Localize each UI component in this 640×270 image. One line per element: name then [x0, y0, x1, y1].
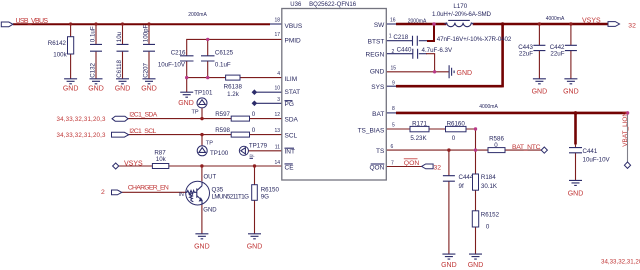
svg-text:GND: GND: [441, 262, 457, 269]
svg-text:U36: U36: [290, 2, 302, 8]
svg-text:SDA: SDA: [285, 116, 299, 123]
svg-text:11: 11: [275, 144, 280, 150]
svg-text:R171: R171: [412, 121, 427, 128]
svg-text:1: 1: [389, 33, 392, 39]
svg-text:17: 17: [274, 32, 280, 38]
svg-text:R598: R598: [215, 127, 230, 134]
svg-text:GND: GND: [203, 208, 217, 214]
svg-text:GND: GND: [194, 244, 210, 251]
svg-text:VSYS: VSYS: [582, 17, 601, 24]
svg-text:OUT: OUT: [204, 175, 217, 181]
svg-text:ILIM: ILIM: [285, 76, 298, 83]
svg-text:0: 0: [452, 135, 456, 142]
svg-text:GND: GND: [247, 244, 263, 251]
svg-text:SCL: SCL: [285, 132, 298, 139]
svg-text:I2C1_SDA: I2C1_SDA: [129, 112, 157, 119]
svg-text:R6142: R6142: [48, 40, 67, 47]
svg-text:4: 4: [277, 71, 280, 77]
svg-text:9f: 9f: [459, 183, 464, 190]
svg-text:2000mA: 2000mA: [408, 18, 427, 24]
svg-text:7: 7: [391, 161, 394, 167]
svg-text:34,33,32,31,20,3: 34,33,32,31,20,3: [601, 259, 640, 266]
svg-text:9G: 9G: [261, 194, 269, 201]
svg-text:IN: IN: [179, 192, 184, 198]
svg-text:6: 6: [391, 144, 394, 150]
svg-text:QON: QON: [369, 164, 384, 171]
svg-text:R6160: R6160: [447, 121, 466, 128]
svg-text:47nF-16V+/-10%-X7R-0402: 47nF-16V+/-10%-X7R-0402: [437, 36, 512, 43]
svg-text:L170: L170: [453, 3, 467, 10]
svg-text:5: 5: [392, 123, 395, 129]
svg-text:4000mA: 4000mA: [479, 104, 498, 110]
svg-text:R6152: R6152: [481, 212, 500, 219]
svg-text:GND: GND: [370, 69, 385, 76]
svg-text:VBAT_LION: VBAT_LION: [622, 112, 629, 147]
svg-text:18: 18: [274, 18, 280, 24]
svg-text:C444: C444: [459, 174, 474, 181]
svg-text:10uF-10V: 10uF-10V: [583, 157, 611, 164]
svg-text:C132: C132: [90, 62, 97, 77]
svg-text:GND: GND: [178, 100, 194, 107]
svg-text:GND: GND: [115, 86, 131, 93]
svg-text:GND: GND: [63, 86, 79, 93]
svg-text:R184: R184: [481, 174, 496, 181]
svg-text:GND: GND: [141, 86, 157, 93]
svg-text:22uF: 22uF: [550, 50, 564, 57]
svg-text:10: 10: [274, 86, 280, 92]
svg-text:100k: 100k: [53, 52, 67, 59]
svg-text:TP100: TP100: [210, 150, 229, 157]
svg-text:SYS: SYS: [371, 84, 385, 91]
svg-text:C440: C440: [397, 46, 412, 53]
svg-text:C218: C218: [393, 34, 408, 41]
svg-text:0.1uF: 0.1uF: [215, 62, 231, 69]
svg-text:BTST: BTST: [368, 38, 385, 45]
svg-text:GND: GND: [532, 89, 548, 96]
svg-text:15: 15: [391, 65, 397, 71]
svg-text:BQ25622-QFN16: BQ25622-QFN16: [309, 2, 357, 8]
svg-text:14: 14: [274, 160, 280, 166]
svg-text:100pF: 100pF: [143, 24, 150, 42]
svg-text:32: 32: [628, 23, 636, 30]
svg-text:GND: GND: [468, 262, 484, 269]
svg-text:3: 3: [277, 97, 280, 103]
svg-text:0: 0: [494, 142, 498, 149]
svg-text:GND: GND: [568, 191, 584, 198]
svg-text:12: 12: [274, 112, 280, 118]
svg-text:34,33,32,31,20,3: 34,33,32,31,20,3: [57, 132, 107, 139]
svg-text:TS_BIAS: TS_BIAS: [358, 128, 385, 135]
svg-text:BAT_NTC: BAT_NTC: [512, 144, 541, 151]
svg-text:1.0uH+/-20%-6A-SMD: 1.0uH+/-20%-6A-SMD: [432, 11, 492, 18]
svg-text:INT: INT: [285, 149, 296, 156]
svg-text:22uF: 22uF: [519, 50, 533, 57]
svg-text:C6125: C6125: [215, 50, 234, 57]
svg-text:C6118: C6118: [116, 59, 123, 77]
svg-text:2: 2: [392, 49, 395, 55]
svg-text:34,33,32,31,20,3: 34,33,32,31,20,3: [57, 116, 107, 123]
svg-text:PMID: PMID: [285, 37, 302, 44]
svg-text:1.2k: 1.2k: [227, 91, 240, 98]
svg-text:4.7uF-6.3V: 4.7uF-6.3V: [422, 47, 453, 54]
svg-text:C441: C441: [583, 148, 598, 155]
svg-text:0: 0: [252, 127, 256, 134]
svg-text:LMUN5211T1G: LMUN5211T1G: [212, 193, 250, 200]
svg-text:PG: PG: [285, 101, 294, 108]
svg-text:10k: 10k: [156, 156, 167, 163]
svg-text:0: 0: [486, 223, 490, 230]
svg-text:C216: C216: [171, 50, 186, 57]
svg-text:USB_VBUS: USB_VBUS: [16, 18, 49, 25]
svg-text:13: 13: [274, 128, 280, 134]
svg-text:TP: TP: [192, 109, 199, 115]
svg-text:TP101: TP101: [194, 89, 213, 96]
svg-text:DL: DL: [250, 153, 256, 158]
svg-text:STAT: STAT: [285, 89, 301, 96]
svg-text:16: 16: [390, 18, 396, 24]
svg-text:R597: R597: [215, 111, 230, 118]
svg-text:CE: CE: [285, 164, 295, 171]
svg-text:10u: 10u: [116, 31, 123, 42]
svg-text:9: 9: [392, 81, 395, 87]
svg-text:BAT: BAT: [372, 111, 384, 118]
svg-text:I2C1_SCL: I2C1_SCL: [129, 128, 156, 135]
svg-text:R6150: R6150: [261, 187, 280, 194]
svg-text:R6138: R6138: [224, 83, 243, 90]
svg-text:C207: C207: [143, 62, 150, 77]
svg-text:5.23K: 5.23K: [410, 135, 427, 142]
svg-text:GND: GND: [563, 89, 579, 96]
svg-text:30.1K: 30.1K: [481, 183, 498, 190]
svg-text:VSYS: VSYS: [124, 160, 143, 167]
svg-text:SW: SW: [374, 22, 385, 29]
svg-text:VBUS: VBUS: [285, 23, 303, 30]
svg-text:REGN: REGN: [366, 51, 385, 58]
svg-text:TP: TP: [206, 140, 213, 146]
svg-text:GND: GND: [457, 70, 473, 77]
svg-text:TS: TS: [376, 148, 385, 155]
svg-text:CHARGER_EN: CHARGER_EN: [128, 185, 169, 192]
svg-text:QON: QON: [404, 160, 420, 167]
svg-text:4000mA: 4000mA: [546, 16, 565, 22]
svg-text:10uF-10V: 10uF-10V: [158, 62, 186, 69]
svg-text:0: 0: [252, 111, 256, 118]
svg-text:GND: GND: [88, 86, 104, 93]
svg-text:2000mA: 2000mA: [188, 12, 207, 18]
svg-text:8: 8: [392, 106, 395, 112]
svg-text:2: 2: [101, 189, 105, 196]
svg-text:32: 32: [434, 165, 442, 172]
svg-text:0.1uF: 0.1uF: [90, 26, 97, 42]
svg-text:TP179: TP179: [249, 142, 268, 149]
